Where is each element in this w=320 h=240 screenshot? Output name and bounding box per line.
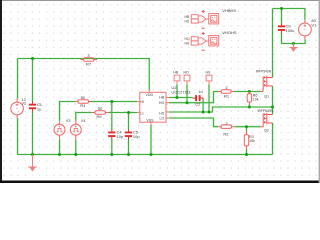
svg-text:VSS: VSS	[146, 119, 154, 123]
wire Q2 source to rail	[272, 107, 274, 115]
node rail V3 junction	[58, 153, 61, 156]
wire top node V2/C1 to VDD	[18, 59, 150, 91]
svg-text:HO: HO	[184, 71, 190, 75]
wire HS port drop	[208, 85, 210, 113]
wire 80V top node	[273, 9, 305, 20]
node R6 top junction	[248, 90, 251, 93]
capacitor C4	[108, 130, 115, 140]
wire C1 branch	[31, 59, 33, 102]
voltage source V1	[299, 20, 312, 40]
wire Q1 source to HS row	[271, 86, 273, 107]
wire R6 bottom to HS row	[248, 105, 250, 108]
node C9 top junction	[280, 7, 283, 10]
wire Q2 source to rail	[271, 107, 273, 115]
svg-text:HO: HO	[185, 37, 190, 41]
wire VSS to rail	[150, 125, 152, 155]
wire C4 bottom	[111, 140, 113, 155]
wire C9 top	[280, 9, 282, 24]
window frame edges	[0, 0, 2, 183]
svg-text:50: 50	[98, 106, 103, 111]
wire R5 to LI pin	[108, 111, 137, 113]
node gnd2 junction	[292, 42, 295, 45]
node C1 top junction	[31, 57, 34, 60]
pulse source V4	[70, 121, 81, 140]
wire C5 top	[127, 113, 129, 130]
wire HS pin row	[169, 107, 273, 112]
resistor R6	[247, 92, 251, 105]
wire C4 top	[111, 102, 113, 130]
svg-text:LI: LI	[141, 111, 144, 115]
svg-text:HO: HO	[159, 101, 165, 105]
resistor R2	[218, 125, 235, 128]
wire R5 to LI pin	[108, 112, 137, 114]
svg-text:V4: V4	[81, 119, 86, 123]
svg-text:V3: V3	[66, 119, 71, 123]
wire V2 bottom to rail	[16, 119, 18, 155]
svg-text:LO: LO	[160, 117, 165, 121]
wire C9 top	[281, 9, 283, 24]
node R6 bottom junction	[248, 106, 251, 109]
svg-text:10k: 10k	[249, 139, 255, 143]
wire C2 right drop to HS row	[202, 98, 204, 112]
svg-text:UCC27211: UCC27211	[171, 89, 191, 94]
svg-text:Q2: Q2	[264, 128, 269, 132]
svg-text:V2: V2	[22, 102, 27, 106]
wire HO pin to R1	[169, 92, 218, 103]
node HS port junction	[208, 111, 211, 114]
node C4/HI junction	[110, 100, 113, 103]
wire HS pin row	[169, 107, 273, 112]
wire HB port drop	[176, 85, 178, 98]
svg-text:Q1: Q1	[264, 94, 269, 98]
wire C4 top	[111, 102, 113, 130]
svg-text:HS: HS	[185, 41, 190, 45]
svg-text:R1: R1	[224, 93, 230, 98]
pulse source V3	[54, 121, 65, 140]
wire R2 to Q2 gate	[235, 126, 260, 128]
svg-text:HS: HS	[206, 71, 212, 75]
wire C5 bottom	[127, 140, 129, 155]
svg-text:HB: HB	[159, 96, 165, 100]
svg-text:IRFP540N: IRFP540N	[256, 70, 272, 74]
wire top node V2/C1 to VDD	[18, 59, 150, 91]
wire C1 branch	[32, 59, 34, 102]
svg-text:VHOHS: VHOHS	[222, 30, 237, 35]
probe U? VHOHS (differential voltage probe)	[191, 36, 218, 46]
wire HO pin to R1	[169, 92, 218, 103]
probe U? VHBHS (differential voltage probe)	[191, 14, 218, 24]
ground (below V1/C9)	[289, 44, 297, 52]
wire R4 to HI pin	[91, 101, 137, 103]
node rail VSS junction	[150, 153, 153, 156]
wire bottom rail	[18, 154, 273, 156]
svg-text:10k: 10k	[253, 98, 259, 102]
wire top-right rail to Q1 drain	[272, 9, 274, 78]
wire R3 bottom to rail	[246, 149, 248, 155]
wire R1 to Q1 gate	[234, 90, 260, 92]
wire V3 riser and row to R4	[60, 102, 76, 121]
wire V4 riser and row to R5	[76, 113, 92, 121]
wire top-right rail to Q1 drain	[271, 9, 273, 78]
transistor Q1 IRFP540N	[260, 76, 272, 92]
wire V3 bottom	[58, 140, 60, 155]
wire V2 branch down	[16, 59, 18, 99]
svg-text:R7: R7	[86, 62, 92, 67]
resistor R4	[75, 100, 91, 104]
wire C5 bottom	[128, 140, 130, 155]
svg-text:10p: 10p	[133, 134, 140, 139]
wire C5 top	[128, 113, 130, 130]
wire HB pin row to C2	[169, 97, 193, 99]
wire halo underlay	[18, 9, 306, 155]
wire V4 riser and row to R5	[76, 113, 92, 121]
ground (bottom left)	[28, 155, 37, 172]
wire HS port drop	[208, 85, 210, 113]
svg-text:HB: HB	[173, 71, 179, 75]
wire R3 bottom to rail	[245, 149, 247, 155]
resistor R3	[244, 132, 248, 149]
node Q1 source / HS junction	[271, 106, 274, 109]
svg-text:IRFP540N: IRFP540N	[258, 109, 274, 113]
node rail V4 junction	[74, 153, 77, 156]
port HB	[174, 75, 180, 81]
resistor R1	[218, 90, 234, 94]
wire C2 right drop to HS row	[202, 98, 204, 112]
wire bottom rail	[18, 153, 273, 155]
wire HB port drop	[176, 85, 178, 98]
capacitor C1	[29, 102, 36, 112]
svg-text:HI: HI	[141, 100, 145, 104]
node rail C4 junction	[110, 153, 113, 156]
capacitor C9	[278, 23, 285, 33]
node HO port junction	[186, 101, 189, 104]
svg-text:VDD: VDD	[146, 93, 154, 97]
svg-text:1n: 1n	[198, 89, 202, 94]
node R3 top junction	[245, 125, 248, 128]
svg-text:10p: 10p	[117, 134, 124, 139]
wire C9 bottom to V1 bottom	[282, 33, 306, 44]
svg-text:50: 50	[81, 95, 86, 100]
voltage source V2	[11, 98, 24, 118]
wire HO port drop	[186, 85, 188, 103]
svg-text:R5: R5	[97, 114, 103, 119]
wire R3 top	[245, 127, 247, 132]
svg-text:C2: C2	[195, 102, 201, 107]
wire R2 to Q2 gate	[235, 126, 260, 128]
node HB port junction	[176, 96, 179, 99]
svg-text:1u: 1u	[37, 106, 41, 111]
wire HO port drop	[186, 85, 188, 103]
wire VSS to rail	[150, 125, 152, 155]
transistor Q2 IRFP540N	[260, 113, 272, 127]
node rail R3 junction	[245, 153, 248, 156]
node rail C5 junction	[127, 153, 130, 156]
wire R1 to Q1 gate	[234, 91, 260, 93]
node rail C1/gnd junction	[31, 153, 34, 156]
wire R4 to HI pin	[91, 100, 137, 102]
wire V3 bottom	[59, 140, 61, 155]
svg-text:V1: V1	[311, 22, 317, 27]
wire 80V top node	[273, 9, 305, 20]
svg-text:VHBHS: VHBHS	[222, 8, 236, 13]
wire V4 bottom	[75, 140, 77, 155]
svg-text:HS: HS	[159, 111, 165, 115]
wire Q2 source to rail	[271, 123, 273, 155]
wire V2 branch down	[17, 59, 19, 99]
resistor R7	[81, 58, 98, 62]
wire V3 riser and row to R4	[60, 102, 76, 121]
resistor R5	[92, 111, 108, 115]
wire HB pin row to C2	[169, 96, 193, 98]
node C5/LI junction	[127, 111, 130, 114]
wire C9 bottom to V1 bottom	[282, 33, 306, 44]
wire LO pin to R2	[169, 118, 218, 127]
svg-text:HB: HB	[185, 15, 190, 19]
port HS	[206, 75, 212, 81]
wire C4 bottom	[111, 140, 113, 155]
wire LO pin to R2	[169, 118, 218, 127]
capacitor C2 (bootstrap)	[193, 95, 204, 101]
wire V4 bottom	[75, 140, 77, 155]
wire V2 bottom to rail	[17, 119, 19, 155]
wire R3 top	[246, 127, 248, 132]
capacitor C5	[125, 130, 132, 140]
wire C1 bottom	[32, 112, 34, 155]
svg-text:100u: 100u	[286, 28, 295, 33]
port HO	[184, 75, 190, 81]
wire Q1 source to HS row	[272, 86, 274, 107]
wire C1 bottom	[31, 112, 33, 155]
svg-text:HS: HS	[185, 19, 190, 23]
wire R6 bottom to HS row	[248, 105, 250, 108]
node C2/HS junction	[202, 111, 205, 114]
svg-text:R4: R4	[80, 103, 86, 108]
wire Q2 source to rail	[272, 123, 274, 155]
op-amp / driver IC U2 UCC27211	[137, 90, 169, 125]
svg-text:R2: R2	[223, 132, 229, 137]
